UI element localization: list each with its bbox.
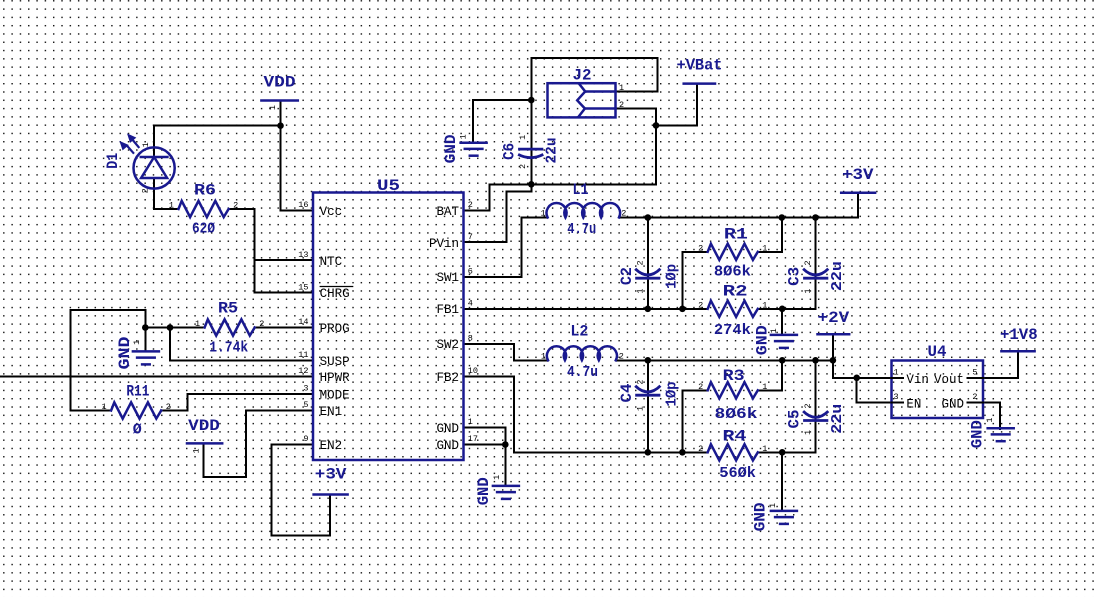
svg-text:3: 3 <box>303 384 308 394</box>
U5 pin CHRG overline <box>320 286 354 288</box>
svg-text:13: 13 <box>298 250 308 260</box>
svg-text:+3V: +3V <box>315 466 347 484</box>
inductor L1 <box>547 203 621 218</box>
svg-text:R2: R2 <box>723 283 748 301</box>
svg-text:+3V: +3V <box>842 166 874 184</box>
svg-text:4: 4 <box>468 299 473 309</box>
svg-text:1: 1 <box>985 417 995 422</box>
wire U5 GND pin1 <box>464 428 505 445</box>
svg-text:1: 1 <box>541 351 546 361</box>
svg-text:4.7u: 4.7u <box>567 221 596 238</box>
svg-text:2: 2 <box>518 164 528 169</box>
svg-text:1: 1 <box>191 448 201 453</box>
wire C3 stem <box>815 218 817 309</box>
svg-text:1: 1 <box>458 134 468 139</box>
svg-text:U5: U5 <box>377 177 400 195</box>
junction +2V node <box>830 357 837 364</box>
svg-text:1: 1 <box>762 444 767 454</box>
ic U5 body <box>313 193 464 461</box>
wire R6 pin2 to CHRG <box>229 209 313 293</box>
svg-text:7: 7 <box>468 232 473 242</box>
junction C3 top <box>812 214 819 221</box>
svg-text:12: 12 <box>298 366 308 376</box>
wire branch to NTC <box>254 259 313 261</box>
svg-text:BAT: BAT <box>436 205 459 219</box>
svg-text:3: 3 <box>894 392 899 402</box>
svg-text:Vcc: Vcc <box>320 205 343 219</box>
wire to PVin pin7 <box>464 184 531 242</box>
svg-text:2: 2 <box>233 201 238 211</box>
svg-text:2: 2 <box>972 392 977 402</box>
wire R3 pin1 riser <box>758 360 782 390</box>
wire C6 stem <box>530 100 532 184</box>
svg-text:2: 2 <box>619 100 624 110</box>
junction R1 top <box>779 214 786 221</box>
svg-text:R3: R3 <box>723 367 745 385</box>
svg-text:VDD: VDD <box>188 417 220 435</box>
svg-text:1: 1 <box>894 368 899 378</box>
ground GND near R2 <box>771 334 797 337</box>
junction R5 gnd node <box>142 324 149 331</box>
wire FB1 to R2 pin2 <box>464 308 708 310</box>
power +3V lower bar <box>314 493 348 496</box>
wire R2 pin1 east <box>758 308 816 310</box>
svg-text:1.74k: 1.74k <box>209 340 248 357</box>
svg-text:+VBat: +VBat <box>677 56 723 74</box>
svg-text:C3: C3 <box>786 267 804 286</box>
wire EN2 <box>272 444 313 446</box>
wire R5 pin1 west <box>145 327 204 329</box>
junction R2 gnd node <box>779 306 786 313</box>
svg-text:1: 1 <box>769 328 779 333</box>
svg-text:Ø: Ø <box>133 422 142 439</box>
power VDD lower bar <box>187 442 222 445</box>
svg-text:C2: C2 <box>618 267 636 285</box>
svg-text:1Øp: 1Øp <box>664 382 681 407</box>
svg-text:C5: C5 <box>786 410 804 429</box>
svg-text:L2: L2 <box>570 323 588 341</box>
svg-text:1: 1 <box>635 406 645 411</box>
svg-text:1: 1 <box>540 209 545 219</box>
svg-text:U4: U4 <box>928 343 947 361</box>
wire to BAT pin2 <box>464 184 531 210</box>
junction R1-R2 <box>679 306 686 313</box>
resistor R6 <box>179 201 229 217</box>
svg-text:2: 2 <box>619 351 624 361</box>
svg-text:2: 2 <box>141 188 151 193</box>
junction BAT node <box>528 181 535 188</box>
junction R3 top <box>779 357 786 364</box>
power +1V8 bar <box>1001 350 1034 353</box>
ground GND below U5 <box>493 485 519 488</box>
svg-text:2: 2 <box>803 403 813 408</box>
svg-text:15: 15 <box>298 282 308 292</box>
resistor R2 <box>708 301 758 317</box>
junction R3-R4 <box>679 449 686 456</box>
svg-text:1: 1 <box>619 83 624 93</box>
svg-text:5: 5 <box>972 368 977 378</box>
svg-text:2: 2 <box>259 319 264 329</box>
svg-text:1: 1 <box>762 300 767 310</box>
svg-text:11: 11 <box>298 350 308 360</box>
svg-text:8Ø6k: 8Ø6k <box>714 264 751 281</box>
wire gnd loop to R11 pin1 <box>70 310 145 411</box>
wire L1 pin2 rail to +3V <box>619 193 858 218</box>
wire C2 stem <box>647 218 649 309</box>
junction R4 gnd node <box>779 449 786 456</box>
svg-text:1: 1 <box>268 105 278 110</box>
junction U4 EN tap <box>853 375 860 382</box>
svg-text:CHRG: CHRG <box>320 287 350 301</box>
svg-text:1: 1 <box>132 340 142 345</box>
svg-text:17: 17 <box>468 434 478 444</box>
resistor R3 <box>708 382 758 398</box>
wire R5 gnd stem <box>144 328 146 352</box>
svg-text:FB2: FB2 <box>436 371 459 385</box>
power +2V bar <box>818 333 850 336</box>
inductor L2 <box>547 346 617 360</box>
svg-text:1: 1 <box>762 382 767 392</box>
svg-text:EN: EN <box>906 397 921 411</box>
svg-text:R5: R5 <box>218 300 238 318</box>
wire R1 pin2 riser <box>682 252 707 309</box>
wire to U4 Vin <box>833 360 892 378</box>
wire VDD stem <box>280 101 282 126</box>
svg-text:EN2: EN2 <box>320 439 343 453</box>
svg-text:SW2: SW2 <box>436 338 459 352</box>
resistor R11 <box>111 402 161 418</box>
svg-text:62Ø: 62Ø <box>192 221 215 238</box>
junction VDD node <box>277 122 284 129</box>
svg-text:VDD: VDD <box>264 74 296 92</box>
junction C4 top <box>645 357 652 364</box>
svg-text:2: 2 <box>468 200 473 210</box>
junction C2 bottom <box>645 306 652 313</box>
svg-text:MODE: MODE <box>320 389 350 403</box>
svg-text:GND: GND <box>751 502 769 531</box>
wire +VBat stem <box>656 84 697 126</box>
wire GND to C6 node <box>473 100 531 143</box>
power +3V bar <box>841 191 875 194</box>
svg-text:274k: 274k <box>714 322 751 339</box>
svg-text:22u: 22u <box>829 404 846 434</box>
svg-text:C6: C6 <box>501 143 519 160</box>
svg-text:GND: GND <box>436 439 459 453</box>
ground GND near C6 <box>461 141 487 144</box>
svg-text:R6: R6 <box>194 182 216 200</box>
svg-text:1: 1 <box>141 142 151 147</box>
svg-text:FB1: FB1 <box>436 303 459 317</box>
resistor R4 <box>708 444 758 460</box>
svg-text:1: 1 <box>468 417 473 427</box>
svg-text:8Ø6k: 8Ø6k <box>715 406 758 423</box>
ground GND near R5 <box>133 350 159 353</box>
resistor R1 <box>708 244 758 260</box>
wire U4 GND stem <box>983 403 1000 429</box>
svg-text:R11: R11 <box>126 383 149 401</box>
wire R3 pin2 riser <box>682 390 707 452</box>
svg-text:8: 8 <box>468 334 473 344</box>
wire EN1 <box>246 410 313 412</box>
connector J2 body <box>548 83 616 117</box>
svg-text:9: 9 <box>303 434 308 444</box>
svg-text:1Øp: 1Øp <box>664 264 681 289</box>
wire D1 cathode to R6 pin1 <box>154 178 179 209</box>
svg-text:22u: 22u <box>829 261 846 291</box>
svg-text:Vin: Vin <box>906 373 929 387</box>
svg-text:1: 1 <box>635 289 645 294</box>
svg-text:NTC: NTC <box>320 255 343 269</box>
svg-text:EN1: EN1 <box>320 405 343 419</box>
junction SUSP tap <box>167 324 174 331</box>
svg-text:1: 1 <box>101 402 106 412</box>
wire D1 top to VDD node <box>154 125 281 127</box>
svg-text:PVin: PVin <box>429 237 459 251</box>
svg-text:R4: R4 <box>723 428 747 446</box>
svg-text:1: 1 <box>518 135 528 140</box>
wire FB2 to R4 pin2 <box>464 377 708 453</box>
svg-text:C4: C4 <box>618 383 636 402</box>
wire EN1 to VDD <box>203 411 246 478</box>
wire R4 gnd stem <box>781 452 783 511</box>
resistor R5 <box>205 319 255 335</box>
svg-text:2: 2 <box>621 209 626 219</box>
svg-text:22u: 22u <box>543 138 560 164</box>
svg-text:HPWR: HPWR <box>320 371 351 385</box>
svg-text:2: 2 <box>698 243 703 253</box>
wire C5 stem <box>815 360 817 452</box>
junction C2 top <box>645 214 652 221</box>
junction C6 top node <box>528 97 535 104</box>
power +VBat bar <box>684 82 715 85</box>
wire +2V stem <box>832 334 834 360</box>
svg-text:2: 2 <box>635 379 645 384</box>
svg-text:J2: J2 <box>573 67 592 85</box>
led D1 arrows <box>121 135 139 153</box>
svg-text:1: 1 <box>803 289 813 294</box>
wire U5 GND pin17 stem <box>464 445 505 486</box>
capacitor C3 <box>803 269 828 275</box>
wire to U4 EN <box>857 378 892 403</box>
svg-text:2: 2 <box>166 402 171 412</box>
wire HPWR to edge <box>0 376 313 378</box>
wire J2 pin1 loop <box>531 58 657 100</box>
svg-text:2: 2 <box>698 382 703 392</box>
svg-text:10: 10 <box>468 366 478 376</box>
svg-text:PROG: PROG <box>320 322 350 336</box>
wire R11 pin2 to MODE <box>161 394 313 411</box>
wire SW1 to L1 pin1 <box>464 218 548 277</box>
junction C4 bottom <box>645 449 652 456</box>
wire R4 pin1 east <box>758 451 816 453</box>
ic U4 body <box>892 361 984 419</box>
svg-text:SW1: SW1 <box>436 271 459 285</box>
wire EN2 to +3V <box>272 445 330 536</box>
svg-text:56Øk: 56Øk <box>719 465 756 482</box>
wire L2 pin2 rail <box>616 359 833 361</box>
svg-text:+2V: +2V <box>818 309 850 327</box>
svg-text:16: 16 <box>298 200 308 210</box>
svg-text:1: 1 <box>803 430 813 435</box>
svg-text:GND: GND <box>442 134 460 163</box>
junction C5 top <box>812 357 819 364</box>
svg-text:5: 5 <box>303 400 308 410</box>
wire to SUSP <box>170 328 313 361</box>
svg-text:4.7u: 4.7u <box>567 364 598 381</box>
svg-text:6: 6 <box>468 267 473 277</box>
svg-text:1: 1 <box>492 475 502 480</box>
wire VDD node to Vcc pin16 <box>281 126 314 211</box>
led D1 <box>134 147 175 188</box>
capacitor C6 <box>518 148 543 151</box>
svg-text:1: 1 <box>768 503 778 508</box>
wire J2 pin2 down to BAT node <box>531 109 656 185</box>
svg-text:2: 2 <box>698 444 703 454</box>
capacitor C4 <box>635 386 660 392</box>
svg-text:D1: D1 <box>104 153 122 169</box>
wire R5 pin2 to PROG <box>255 327 313 329</box>
svg-text:1: 1 <box>195 319 200 329</box>
U4 pin stub lines <box>892 377 904 379</box>
wire C4 stem <box>647 360 649 452</box>
ground GND near U4 <box>988 427 1014 430</box>
svg-text:2: 2 <box>635 260 645 265</box>
wire R2 gnd stem <box>781 309 783 335</box>
power VDD top bar <box>261 99 297 102</box>
wire SW2 to L2 pin1 <box>464 344 548 360</box>
wire J2 pin1 <box>616 91 658 93</box>
svg-text:2: 2 <box>803 260 813 265</box>
svg-text:L1: L1 <box>573 181 589 199</box>
wire into D1 anode <box>153 126 155 157</box>
svg-text:2: 2 <box>698 300 703 310</box>
svg-text:R1: R1 <box>724 226 748 244</box>
svg-text:SUSP: SUSP <box>320 355 350 369</box>
junction +VBat node <box>653 122 660 129</box>
svg-text:14: 14 <box>298 317 308 327</box>
svg-text:GND: GND <box>941 397 964 411</box>
svg-text:1: 1 <box>762 243 767 253</box>
ground GND near R4 <box>771 510 797 513</box>
wire U4 Vout to +1V8 <box>983 351 1018 378</box>
svg-text:GND: GND <box>436 422 459 436</box>
junction U5 gnd <box>502 441 509 448</box>
svg-text:GND: GND <box>475 477 493 505</box>
svg-text:GND: GND <box>968 420 986 448</box>
svg-text:1: 1 <box>169 201 174 211</box>
capacitor C2 <box>635 269 660 275</box>
svg-text:Vout: Vout <box>934 373 964 387</box>
svg-text:+1V8: +1V8 <box>1000 326 1038 344</box>
capacitor C5 <box>803 411 828 417</box>
wire R1 pin1 riser <box>758 218 782 252</box>
